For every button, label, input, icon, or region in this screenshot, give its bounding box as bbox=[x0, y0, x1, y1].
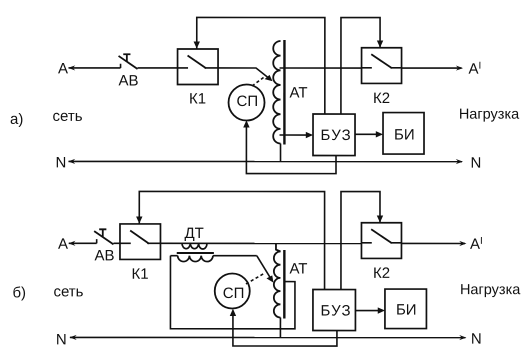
indicator BI box (diagram b) bbox=[385, 289, 427, 329]
wire AB to K1 (diagram b) bbox=[113, 242, 120, 244]
label load Nagruzka (diagram a) bbox=[459, 107, 520, 123]
svg-text:АВ: АВ bbox=[119, 72, 139, 89]
node N label right (diagram a) bbox=[471, 155, 482, 172]
node A' label (diagram b) bbox=[470, 236, 483, 253]
contactor K1 box (diagram a) bbox=[178, 49, 219, 85]
wire AB to K1 bbox=[138, 67, 178, 69]
wire A to breaker AB (diagram b) bbox=[68, 241, 96, 246]
svg-text:БУЗ: БУЗ bbox=[321, 127, 352, 144]
label b) bbox=[12, 284, 26, 301]
svg-text:БИ: БИ bbox=[394, 127, 415, 144]
node A' label (diagram a) bbox=[469, 61, 482, 78]
svg-text:СП: СП bbox=[223, 285, 245, 302]
contactor K1 switch contact bbox=[178, 55, 219, 68]
svg-text:сеть: сеть bbox=[53, 108, 83, 125]
servo drive SP circle (diagram a) bbox=[229, 84, 265, 120]
wire BUZ to SP servo (diagram a) bbox=[243, 120, 336, 173]
circuit breaker AB (diagram a) bbox=[119, 54, 138, 69]
label BI bbox=[394, 127, 415, 144]
wire AT bottom to N (diagram b) bbox=[279, 318, 281, 338]
label BI (diagram b) bbox=[396, 302, 417, 319]
current transformer DT secondary winding bbox=[170, 256, 256, 262]
svg-text:К2: К2 bbox=[373, 90, 390, 107]
servo drive SP circle (diagram b) bbox=[215, 273, 250, 308]
contactor K2 box (diagram a) bbox=[362, 48, 402, 84]
label SP bbox=[237, 93, 259, 110]
wire DT secondary to AT wiper arrow (diagram b) bbox=[257, 256, 274, 283]
svg-text:К2: К2 bbox=[373, 265, 390, 282]
wire AT tap to BUZ with arrowhead (diagram a) bbox=[280, 132, 314, 138]
label K2 (diagram b) bbox=[373, 265, 390, 282]
contactor K2 switch contact (diagram b) bbox=[361, 229, 401, 243]
control wire BUZ to K1 (feedback, diagram b) bbox=[136, 191, 325, 289]
label set (network, diagram b) bbox=[53, 283, 83, 300]
current transformer DT primary winding bbox=[182, 243, 207, 249]
control unit BUZ box (diagram b) bbox=[313, 290, 356, 331]
wire K1 to K2 through DT primary (phase line, diagram b) bbox=[160, 242, 361, 244]
svg-text:АТ: АТ bbox=[290, 85, 308, 102]
wire DT secondary loop to AT tap (diagram b) bbox=[170, 256, 295, 329]
wire N neutral (diagram b) bbox=[69, 335, 466, 340]
wire K2 to node A' with arrowhead (diagram b) bbox=[401, 241, 466, 246]
wire BUZ to BI with arrowhead (diagram a) bbox=[355, 131, 383, 137]
wire BUZ to BI with arrowhead (diagram b) bbox=[355, 307, 385, 313]
autotransformer AT core (diagram a) bbox=[283, 40, 285, 144]
svg-text:АВ: АВ bbox=[94, 247, 114, 264]
svg-text:ДТ: ДТ bbox=[184, 225, 203, 242]
label SP (diagram b) bbox=[223, 285, 245, 302]
wire AT output to K2 (diagram a) bbox=[280, 67, 362, 69]
svg-text:А: А bbox=[58, 60, 68, 77]
label BUZ (diagram b) bbox=[320, 303, 351, 320]
label AB (diagram b) bbox=[94, 247, 114, 264]
svg-text:сеть: сеть bbox=[53, 283, 83, 300]
svg-text:А: А bbox=[58, 236, 68, 253]
label K1 bbox=[189, 90, 206, 107]
circuit breaker AB (diagram b) bbox=[94, 229, 113, 244]
label set (network, diagram a) bbox=[53, 108, 83, 125]
node N label left (diagram b) bbox=[56, 331, 67, 348]
label a) bbox=[10, 111, 23, 128]
svg-text:N: N bbox=[471, 331, 482, 348]
node A (phase input, diagram a) bbox=[58, 60, 68, 77]
svg-text:К1: К1 bbox=[131, 266, 148, 283]
node A (phase input, diagram b) bbox=[58, 236, 68, 253]
label K1 (diagram b) bbox=[131, 266, 148, 283]
control wire BUZ to K2 (feedback, diagram b) bbox=[341, 192, 383, 290]
svg-text:а): а) bbox=[10, 111, 23, 128]
wire AT bottom to N (diagram a) bbox=[280, 144, 282, 162]
svg-text:N: N bbox=[56, 154, 67, 171]
control wire BUZ to K2 (feedback, diagram a) bbox=[341, 18, 383, 115]
svg-text:N: N bbox=[56, 331, 67, 348]
label AB bbox=[119, 72, 139, 89]
label BUZ bbox=[321, 127, 352, 144]
node N label right (diagram b) bbox=[471, 331, 482, 348]
node N label left (diagram a) bbox=[56, 154, 67, 171]
autotransformer AT winding (diagram b) bbox=[274, 243, 281, 317]
label AT (diagram b) bbox=[289, 261, 307, 278]
current transformer DT core bar bbox=[177, 252, 214, 254]
wire BUZ to SP servo (diagram b) bbox=[230, 309, 337, 346]
svg-text:АТ: АТ bbox=[289, 261, 307, 278]
autotransformer AT winding (diagram a) bbox=[273, 41, 280, 144]
mechanical link SP to wiper (dashed, diagram a) bbox=[252, 76, 266, 86]
label DT bbox=[184, 225, 203, 242]
contactor K1 box (diagram b) bbox=[120, 224, 161, 260]
control unit BUZ box (diagram a) bbox=[313, 114, 355, 156]
svg-text:СП: СП bbox=[237, 93, 259, 110]
label AT (diagram a) bbox=[290, 85, 308, 102]
wire N neutral (diagram a) bbox=[68, 159, 463, 164]
label K2 bbox=[373, 90, 390, 107]
wire K2 to node A' with arrowhead bbox=[402, 65, 464, 70]
svg-text:К1: К1 bbox=[189, 90, 206, 107]
svg-text:БИ: БИ bbox=[396, 302, 417, 319]
contactor K2 switch contact bbox=[362, 54, 402, 68]
wire K1 to AT wiper arrow bbox=[218, 68, 273, 81]
control wire BUZ to K1 (feedback, diagram a) bbox=[194, 17, 325, 114]
svg-text:N: N bbox=[471, 155, 482, 172]
svg-text:Нагрузка: Нагрузка bbox=[460, 282, 521, 298]
label load Nagruzka (diagram b) bbox=[460, 282, 521, 298]
indicator BI box (diagram a) bbox=[383, 113, 424, 155]
autotransformer AT core (diagram b) bbox=[283, 250, 285, 319]
svg-text:б): б) bbox=[12, 284, 26, 301]
contactor K1 switch contact (diagram b) bbox=[120, 231, 161, 244]
svg-text:Нагрузка: Нагрузка bbox=[459, 107, 520, 123]
contactor K2 box (diagram b) bbox=[361, 223, 401, 259]
mechanical link SP to wiper (dashed, diagram b) bbox=[246, 273, 264, 284]
wire A to breaker AB bbox=[68, 65, 121, 70]
svg-text:БУЗ: БУЗ bbox=[320, 303, 351, 320]
